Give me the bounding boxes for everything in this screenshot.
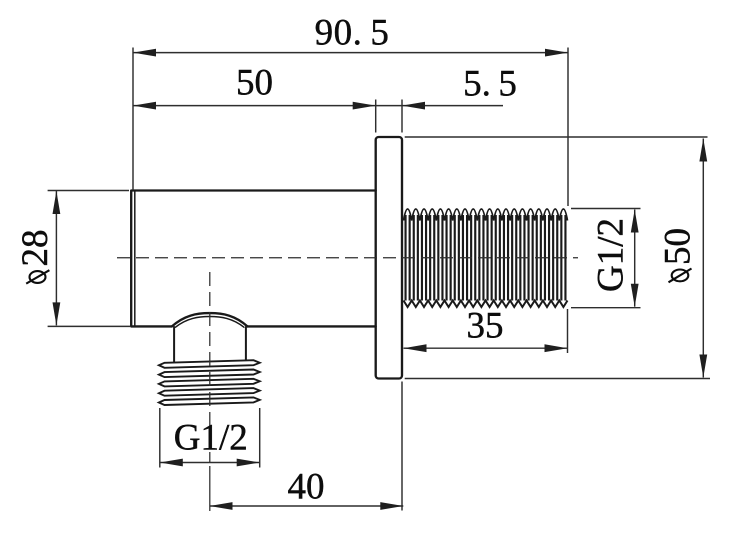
svg-text:5. 5: 5. 5: [463, 63, 517, 104]
svg-text:G1/2: G1/2: [590, 218, 631, 292]
svg-text:50: 50: [236, 62, 273, 103]
svg-text:G1/2: G1/2: [174, 417, 248, 458]
svg-text:50: 50: [657, 228, 698, 265]
svg-text:40: 40: [288, 466, 325, 507]
svg-text:28: 28: [15, 230, 56, 267]
svg-text:35: 35: [467, 305, 504, 346]
svg-text:90. 5: 90. 5: [315, 12, 390, 53]
